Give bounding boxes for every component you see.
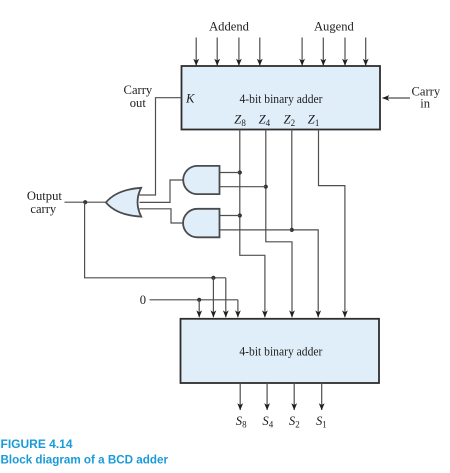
wire sum output S8 <box>239 383 241 410</box>
wire sum output S4 <box>266 383 268 410</box>
node zero branch <box>197 298 201 302</box>
svg-text:K: K <box>185 91 195 105</box>
wire AND2 input from Z2 <box>220 229 292 231</box>
svg-text:Output: Output <box>27 189 62 203</box>
svg-text:Block diagram of a BCD adder: Block diagram of a BCD adder <box>1 453 169 467</box>
wire AND2 input from Z8 <box>220 215 240 217</box>
wire AND1 input from Z8 <box>220 172 240 174</box>
4-bit binary adder U1 <box>182 66 381 130</box>
and-gate A1 (Z8·Z4) <box>183 166 219 194</box>
wire augend input B8 <box>301 38 303 66</box>
wire Z2 vertical <box>292 130 318 318</box>
wire correction bit2 into U2 <box>225 278 227 317</box>
wire OR output to output-carry node <box>65 201 107 203</box>
svg-text:4-bit binary adder: 4-bit binary adder <box>240 92 324 106</box>
svg-text:S8: S8 <box>236 414 247 430</box>
wire K carry-out from U1 to OR gate <box>140 98 182 195</box>
wire addend input A2 <box>238 38 240 66</box>
wire addend input A4 <box>216 38 218 66</box>
wire augend input B2 <box>344 38 346 66</box>
wire zero bit1 into U2 <box>237 300 239 317</box>
node carry correction branch <box>211 276 215 280</box>
wire augend input B4 <box>322 38 324 66</box>
svg-text:Augend: Augend <box>314 20 355 34</box>
4-bit binary adder U2 <box>181 319 380 383</box>
node output carry junction <box>83 200 87 204</box>
wire addend input A8 <box>195 38 197 66</box>
or-gate G1 (output carry) <box>106 188 141 217</box>
svg-text:in: in <box>420 96 430 110</box>
svg-text:Addend: Addend <box>209 20 250 34</box>
svg-text:S2: S2 <box>289 414 300 430</box>
wire AND1 input from Z4 <box>220 186 266 188</box>
node Z8-AND1 tap <box>238 170 242 174</box>
svg-text:4-bit binary adder: 4-bit binary adder <box>239 344 323 358</box>
and-gate A2 (Z8·Z2) <box>183 209 219 238</box>
wire addend input A1 <box>259 38 261 66</box>
wire Z8 vertical <box>240 130 265 318</box>
node Z2-AND2 tap <box>290 228 294 232</box>
wire Z1 vertical <box>319 130 345 318</box>
svg-text:FIGURE 4.14: FIGURE 4.14 <box>1 437 73 451</box>
wire carry-in arrow <box>383 97 411 99</box>
svg-text:S4: S4 <box>262 414 273 430</box>
node Z4-AND1 tap <box>264 185 268 189</box>
svg-text:S1: S1 <box>316 414 327 430</box>
wire sum output S1 <box>321 383 323 410</box>
wire Z4 vertical <box>266 130 292 318</box>
wire zero bit8 into U2 <box>198 300 200 317</box>
wire AND1 output to OR <box>140 180 184 202</box>
wire sum output S2 <box>293 383 295 410</box>
wire output carry down and across to U2 <box>85 202 226 278</box>
wire zero line <box>150 299 238 301</box>
svg-text:0: 0 <box>140 293 146 307</box>
svg-text:out: out <box>130 96 147 110</box>
wire AND2 output to OR <box>140 209 184 223</box>
node Z8-AND2 tap <box>238 213 242 217</box>
svg-text:carry: carry <box>30 202 57 216</box>
wire augend input B1 <box>365 38 367 66</box>
wire correction bit4 into U2 <box>212 278 214 317</box>
